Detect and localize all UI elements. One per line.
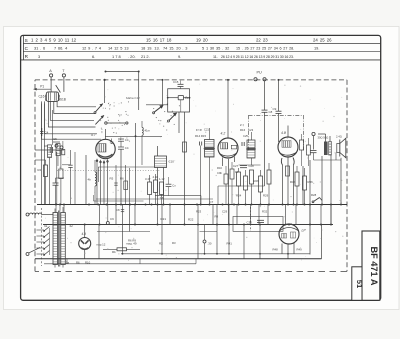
terminal A — [49, 69, 52, 92]
svg-text:C25: C25 — [243, 134, 248, 138]
dashed AVC vertical — [250, 207, 252, 231]
wire band link — [105, 135, 162, 137]
screen box dash-dot — [249, 115, 304, 152]
HT bus dots — [84, 224, 332, 226]
svg-text:C8: C8 — [116, 208, 120, 212]
svg-text:C9b: C9b — [217, 171, 222, 175]
svg-text:52: 52 — [70, 224, 74, 228]
coil box S13 — [48, 110, 53, 205]
labels S1 S2 — [44, 224, 73, 228]
wire r-bank top — [239, 164, 261, 166]
svg-text:5a: 5a — [66, 261, 70, 265]
resistor R5 — [110, 165, 118, 205]
bus junction dots — [55, 204, 342, 206]
C30 network loop — [233, 217, 283, 232]
capacitor C6 — [35, 144, 64, 153]
svg-text:R41: R41 — [227, 241, 233, 245]
band switch arrow 1 — [94, 104, 103, 114]
svg-text:22 23: 22 23 — [256, 37, 268, 42]
resistor R39 — [307, 138, 311, 166]
mid region labels — [97, 200, 253, 246]
svg-text:R26: R26 — [254, 179, 260, 183]
table row R values — [38, 54, 294, 59]
capacitors C27 C28 — [233, 164, 254, 168]
table row labels S C R — [25, 38, 29, 59]
speaker labels — [318, 135, 342, 140]
svg-text:C23: C23 — [248, 128, 254, 132]
power transformer — [53, 207, 65, 268]
output transformer — [324, 134, 331, 155]
coil box S14 — [56, 144, 60, 166]
gang link dotted — [57, 170, 160, 172]
capacitor C15 — [173, 80, 184, 89]
resistor R33 cathode — [286, 166, 290, 176]
label S18 — [60, 98, 66, 102]
svg-text:4b: 4b — [88, 178, 92, 182]
svg-text:9.: 9. — [178, 54, 181, 59]
label C12 — [126, 96, 140, 100]
svg-text:R49: R49 — [297, 248, 303, 252]
resistor R35 — [303, 168, 307, 205]
trimmer arrow P1 — [34, 85, 52, 91]
svg-text:6.: 6. — [92, 54, 95, 59]
valve V3 (output) — [278, 137, 298, 165]
antenna coil S18 — [45, 85, 60, 101]
svg-text:R14 R15: R14 R15 — [195, 134, 206, 138]
oscillator coil S10 — [155, 146, 175, 205]
svg-text:S: S — [25, 38, 28, 43]
resistor R26 — [250, 170, 254, 205]
svg-text:4.9: 4.9 — [82, 232, 87, 236]
svg-text:C30: C30 — [247, 220, 253, 224]
svg-text:51: 51 — [44, 224, 48, 228]
svg-text:C7: C7 — [210, 200, 214, 204]
osc switch arrow 2 — [168, 113, 178, 122]
svg-text:R34: R34 — [290, 180, 296, 184]
capacitor C14 — [178, 96, 190, 112]
parts table grid — [21, 35, 381, 60]
node grid feed — [104, 79, 106, 103]
heater return line — [44, 259, 196, 264]
svg-text:C4: C4 — [125, 138, 129, 142]
svg-text:C9: C9 — [110, 217, 114, 221]
svg-text:R16: R16 — [217, 166, 222, 170]
svg-text:R5: R5 — [110, 177, 114, 181]
osc feed vertical — [162, 79, 164, 107]
capacitor C30 — [257, 220, 264, 222]
svg-text:R6: R6 — [120, 177, 124, 181]
trimmer capacitor C4 — [40, 128, 48, 136]
svg-text:R16: R16 — [240, 128, 246, 132]
wire screen — [129, 168, 131, 205]
svg-text:C4: C4 — [125, 146, 129, 150]
lower bus dots — [122, 253, 289, 255]
resistor R20 — [230, 162, 234, 205]
svg-text:3.47: 3.47 — [145, 177, 151, 181]
svg-text:15 . 26 27 23 25 27 34 6 27 28: 15 . 26 27 23 25 27 34 6 27 28. — [236, 47, 294, 51]
svg-text:R28: R28 — [311, 193, 317, 197]
svg-text:R23: R23 — [196, 210, 202, 214]
svg-text:C5: C5 — [53, 137, 57, 141]
drawing sheet frame — [21, 35, 381, 300]
labels above T2 — [195, 128, 206, 138]
labels right of V2 — [204, 123, 254, 138]
switch enclosure dashed — [41, 208, 43, 266]
inter-bus wires upper — [100, 205, 332, 225]
capacitor C24 — [166, 177, 177, 196]
V4 pin wires — [273, 205, 303, 259]
title block box 51 — [352, 267, 362, 301]
svg-text:S1B: S1B — [60, 98, 66, 102]
svg-text:R3: R3 — [172, 241, 176, 245]
capacitor C9 — [273, 79, 282, 142]
svg-text:19 20: 19 20 — [196, 37, 208, 42]
padding coil 41m — [142, 121, 151, 165]
valve V5 (rectifier) — [79, 238, 91, 250]
resistor R1 — [103, 248, 140, 254]
resistor R24 — [237, 168, 241, 205]
coil box S15 — [62, 141, 70, 165]
osc switch arrow 1 — [153, 105, 164, 114]
coil L4b — [88, 160, 97, 205]
svg-text:41m: 41m — [145, 129, 151, 133]
svg-text:18 19. 13.: 18 19. 13. — [141, 46, 160, 51]
potentiometer C9 — [106, 205, 109, 225]
resistor R19 — [224, 166, 228, 205]
capacitor C2 left — [53, 178, 65, 205]
mains switch S1 — [26, 213, 40, 256]
svg-text:. 20.: . 20. — [128, 54, 136, 59]
wave switch contacts — [37, 227, 50, 256]
wire osc to IF1 — [98, 167, 154, 182]
trimmer capacitor C5 — [53, 137, 63, 149]
scan noise — [40, 84, 343, 261]
svg-text:1 7 8: 1 7 8 — [112, 54, 121, 59]
svg-text:C21: C21 — [204, 128, 209, 132]
svg-text:R6: R6 — [76, 261, 80, 265]
svg-text:LP: LP — [302, 229, 307, 233]
label V5 type — [82, 232, 87, 236]
svg-text:C15: C15 — [173, 80, 179, 84]
svg-text:4.32: 4.32 — [153, 175, 159, 179]
svg-text:Maha C12: Maha C12 — [126, 96, 140, 100]
terminal PU — [254, 71, 266, 81]
bus AVC segment — [96, 198, 213, 200]
valve V2 (IF amp) — [218, 138, 238, 158]
wire det out — [94, 195, 144, 201]
bus segment lower — [121, 253, 310, 255]
svg-text:12 9 . 7 4: 12 9 . 7 4 — [82, 46, 102, 51]
wire PU to AF — [218, 81, 273, 205]
svg-text:1 2 3 4 5 9 10 11 12: 1 2 3 4 5 9 10 11 12 — [31, 37, 77, 42]
oscillator tank loop — [167, 89, 191, 112]
svg-text:R8: R8 — [215, 215, 219, 219]
valve V4 (LP output) — [279, 224, 299, 244]
svg-text:Z ‡: Z ‡ — [240, 123, 244, 127]
loudspeaker — [337, 138, 346, 157]
svg-text:Σ! Σ!: Σ! Σ! — [196, 128, 202, 132]
svg-text:P1: P1 — [40, 85, 44, 89]
svg-text:R2: R2 — [159, 242, 163, 246]
svg-text:R21: R21 — [161, 217, 167, 221]
wire bundle from antenna coil — [41, 101, 101, 204]
resistor R15 — [160, 182, 164, 205]
wire loop feed — [179, 112, 185, 205]
resistor R25 — [244, 170, 248, 205]
capacitor C5b — [68, 150, 72, 205]
tone switch R28 — [311, 193, 322, 203]
table row C values — [34, 46, 319, 51]
svg-text:C9: C9 — [273, 107, 277, 111]
bottom labels — [66, 210, 268, 265]
mains fuse coil — [30, 213, 54, 215]
svg-text:R29: R29 — [263, 194, 269, 198]
wire gang C1 — [56, 152, 58, 205]
svg-text:30Ω 50Ω: 30Ω 50Ω — [318, 136, 329, 140]
svg-text:31 . 6: 31 . 6 — [34, 46, 45, 51]
resistor R27 — [259, 170, 263, 205]
svg-text:Cx: Cx — [172, 184, 176, 188]
svg-text:24 25 26: 24 25 26 — [313, 37, 332, 42]
switch wafer speckles — [100, 101, 180, 140]
table row S values — [31, 37, 332, 42]
svg-text:R32: R32 — [262, 210, 268, 214]
svg-text:PU: PU — [257, 71, 263, 75]
bus HT — [43, 224, 333, 226]
svg-text:BF 471 A: BF 471 A — [369, 247, 379, 286]
svg-text:7 66. 4: 7 66. 4 — [54, 46, 68, 51]
wire osc gang — [135, 123, 137, 205]
bus heater — [35, 225, 322, 259]
label V1 type — [91, 133, 96, 137]
osc link horizontal — [146, 104, 168, 106]
svg-text:R24: R24 — [236, 194, 242, 198]
resistor R4 left — [35, 160, 48, 205]
svg-text:1.12: 1.12 — [159, 177, 165, 181]
svg-text:C16: C16 — [39, 94, 45, 98]
svg-text:R10: R10 — [85, 261, 91, 265]
resistor R34 — [295, 166, 299, 205]
label V2 type — [221, 132, 226, 136]
svg-text:C29: C29 — [222, 210, 228, 214]
terminal T — [62, 69, 65, 92]
det cluster labels — [145, 175, 165, 181]
resistor R6 — [120, 165, 128, 205]
inter-bus wires lower — [99, 205, 260, 259]
resistor R29 — [267, 163, 271, 205]
svg-text:21 2.: 21 2. — [141, 54, 150, 59]
IF transformer T2 — [200, 128, 215, 205]
svg-text:A: A — [49, 69, 52, 73]
V3 pin wires — [283, 126, 294, 205]
label C16 — [39, 94, 45, 98]
resistor R13 — [148, 175, 152, 205]
svg-text:4.2: 4.2 — [221, 132, 226, 136]
resistor R10b — [183, 142, 187, 152]
grid capacitors C4a C4b right of V1 — [118, 138, 129, 205]
r-bank labels — [236, 179, 313, 198]
svg-text:51: 51 — [355, 280, 364, 289]
valve V1 (mixer) — [96, 139, 115, 159]
label V3 type — [281, 131, 286, 135]
svg-text:15 16 17 18: 15 16 17 18 — [146, 37, 172, 42]
wire osc pad — [74, 152, 76, 205]
chassis dashed border — [35, 80, 347, 272]
padder resistor R5a — [59, 150, 63, 205]
labels left of V2 base — [217, 166, 238, 175]
svg-text:5 1 30 35 . 32: 5 1 30 35 . 32 — [202, 46, 229, 51]
svg-text:4.7: 4.7 — [91, 133, 96, 137]
svg-text:nap.12: nap.12 — [97, 243, 106, 247]
V5 wires — [84, 225, 86, 259]
svg-text:C27: C27 — [233, 164, 239, 168]
svg-text:C4: C4 — [45, 131, 49, 135]
svg-text:74 15. 20 . 3: 74 15. 20 . 3 — [163, 46, 187, 51]
wire AVC left — [85, 155, 87, 205]
speaker terminal — [312, 132, 315, 149]
svg-text:R48: R48 — [273, 248, 279, 252]
bus chassis 0V — [37, 204, 347, 206]
V2 pin wires — [223, 79, 235, 225]
wire det coupling — [155, 196, 201, 205]
svg-text:14 12 5 13: 14 12 5 13 — [108, 46, 129, 51]
svg-text:11.: 11. — [213, 55, 218, 59]
svg-text:R22: R22 — [188, 218, 194, 222]
svg-text:19.: 19. — [314, 46, 319, 51]
resistor R14 — [154, 174, 158, 205]
svg-text:R6 R9: R6 R9 — [128, 239, 136, 243]
svg-text:R4: R4 — [38, 168, 42, 172]
transformer taps to bus — [56, 205, 64, 213]
speaker area wires — [314, 134, 342, 225]
svg-text:.30: .30 — [208, 241, 212, 245]
right verticals — [303, 160, 310, 255]
V1 pin wires — [96, 129, 108, 205]
svg-text:26 12 4 9 25 11 12 16 26 13 9: 26 12 4 9 25 11 12 16 26 13 9 28 29 31 3… — [221, 55, 294, 59]
label LP — [302, 229, 307, 233]
svg-text:3: 3 — [38, 54, 40, 59]
resistor R38 — [300, 134, 304, 166]
wire top link — [105, 71, 140, 111]
capacitor C8b — [116, 208, 124, 212]
svg-text:2.4Ω: 2.4Ω — [336, 135, 342, 139]
band switch arrow 2 — [95, 115, 128, 124]
bus bias segment — [97, 231, 217, 233]
capacitor C33 — [311, 151, 317, 161]
title block box BF 471 A — [362, 231, 380, 300]
jack R30 — [203, 225, 212, 254]
IF transformer T3 — [242, 132, 256, 165]
